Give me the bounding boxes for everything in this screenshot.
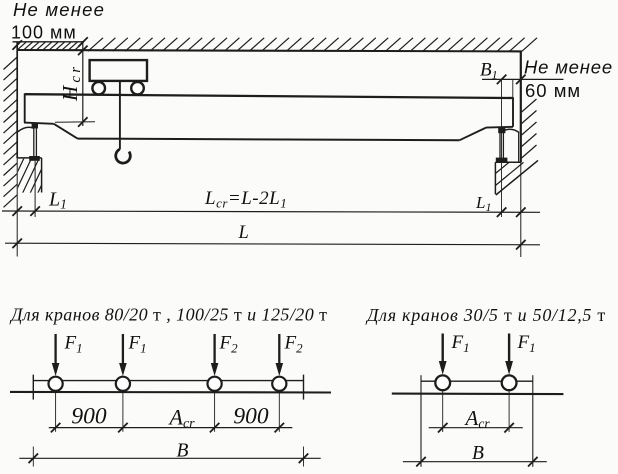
bridge end bar / B extension right (right diagram) [532,375,534,467]
ceiling hatching: main run above ceiling line [88,38,537,51]
right corbel top edge [495,161,521,163]
beam right end extension line to B1 [512,79,514,98]
B tick right (right diagram) [528,457,538,467]
B dimension line (left diagram) [19,457,320,459]
runway rail line (right diagram) [392,393,564,396]
crane runway beam: top flange [25,94,513,98]
left wall line [16,42,18,158]
wheel spacing dimension line (left diagram) [49,427,292,429]
wheel axis extension #1 (right diagram) [442,390,444,432]
hook [116,149,131,163]
runway rail line (left diagram) [10,391,331,394]
L tick right [516,240,526,250]
beam bottom taper left [54,124,78,139]
svg-text:Для кранов 80/20 т , 100/25 т: Для кранов 80/20 т , 100/25 т и 125/20 т [9,305,328,325]
crane wheel #1 (right diagram) [435,375,450,390]
beam bottom edge midspan [78,139,460,141]
B dimension line (right diagram) [403,461,547,463]
B extension line right (left diagram) [303,447,305,467]
B1 dimension line [482,78,564,80]
force arrow F1 #2 (right diagram) [508,334,510,363]
L_cr dimension line [2,211,540,212]
right wall hatching [522,99,537,158]
dimension tick (left diagram) [118,423,128,433]
left wall hatching [4,57,18,207]
left wall extension line down to L dimension [16,158,18,256]
L dimension line [5,243,540,245]
bridge end bar / B extension left (right diagram) [420,375,422,467]
wheel axis extension line #1 (left diagram) [55,391,57,431]
right wall line [520,51,522,162]
B1 tick at hanger axis [497,75,507,85]
100-mm dimension tick at wall corner [12,40,22,50]
right hanger bottom clamp [496,158,508,163]
svg-text:Не менее: Не менее [13,0,105,20]
L_cr tick left wall [12,206,22,216]
ceiling hatching: dense band between wall corner and H_cr line [17,42,84,50]
H_cr tick top [78,46,88,56]
left hanger top clamp [32,124,38,129]
left hanger bracket arc [18,127,34,132]
H_cr tick bottom [78,117,88,127]
dimension tick (left diagram) [275,423,285,433]
L tick left [12,239,22,249]
svg-text:Не менее: Не менее [524,57,613,78]
right hanger top clamp [498,127,505,134]
crane wheel #2 (right diagram) [502,375,517,390]
svg-text:60 мм: 60 мм [525,80,581,101]
wheel axis extension line #4 (left diagram) [278,391,280,431]
force arrow F1 #2 (left diagram) [122,334,124,365]
right hanger axis extension line [501,79,503,217]
L_cr tick right hanger [497,207,507,217]
left hanger bottom clamp [29,156,40,161]
beam bottom extension line to H_cr [55,121,95,123]
beam bottom edge at left end [24,123,54,124]
L_cr tick right wall [516,207,526,217]
right bracket plate edge [518,133,520,162]
right wall extension line down to L dimension [520,162,522,257]
svg-text:900: 900 [233,404,269,430]
hoist trolley body [90,60,147,81]
svg-text:L: L [238,223,249,243]
hoist cable [119,81,121,150]
left hanger axis extension line [34,161,36,217]
force arrow F1 #1 (left diagram) [54,334,56,365]
beam left end edge [24,93,26,122]
A_cr dimension line (right diagram) [429,427,523,429]
bridge end bar right [303,375,305,400]
A_cr tick left (right diagram) [438,423,448,433]
bridge end bar left [32,375,34,400]
ceiling: 100-mm dimension line (upper edge of hatched band) [13,41,84,43]
beam right end edge [512,97,514,127]
trolley right wheel [131,82,144,95]
100-mm dimension tick at H_cr line [78,37,88,47]
trolley left wheel [92,82,105,95]
crane wheel #4 (left diagram) [272,377,286,391]
B1 tick at wall [516,75,526,85]
left corbel right edge [41,158,43,193]
wheel axis extension line #2 (left diagram) [122,391,124,431]
B tick left (left diagram) [29,454,39,464]
force arrow F1 #1 (right diagram) [442,334,444,363]
B tick right (left diagram) [299,454,309,464]
dimension tick (left diagram) [51,423,61,433]
force arrow F2 #4 (left diagram) [278,334,280,365]
crane wheel #3 (left diagram) [208,377,222,391]
L_cr tick left hanger [30,206,40,216]
H_cr dimension line (vertical) [82,42,84,126]
svg-text:100 мм: 100 мм [11,23,77,43]
right hanger bracket arc [504,129,519,132]
svg-text:Для кранов 30/5 т и 50/12,5 т: Для кранов 30/5 т и 50/12,5 т [365,305,606,325]
dimension tick (left diagram) [210,423,220,433]
svg-text:900: 900 [71,404,107,430]
right corbel slanted bottom edge [496,160,538,195]
left hanger rod (double line) [33,125,35,158]
B tick left (right diagram) [416,457,426,467]
force arrow F2 #3 (left diagram) [213,334,215,365]
crane bridge line (right diagram) [421,380,533,382]
ceiling line (soffit of roof slab) [17,50,522,51]
wheel axis extension line #3 (left diagram) [214,391,216,431]
left corbel top edge [17,157,41,159]
right corbel left edge [494,162,496,194]
svg-text:B: B [177,441,189,462]
right corbel hatching [495,162,523,185]
crane bridge line (left diagram) [33,380,303,382]
wheel axis extension #2 (right diagram) [508,390,510,432]
crane wheel #1 (left diagram) [49,377,63,391]
B extension line left (left diagram) [32,447,34,467]
svg-text:B: B [472,443,484,464]
A_cr tick right (right diagram) [504,423,514,433]
beam bottom taper right [460,128,486,141]
crane wheel #2 (left diagram) [116,377,130,391]
right hanger rod (double line) [499,128,501,159]
beam bottom edge at right end [486,126,513,129]
